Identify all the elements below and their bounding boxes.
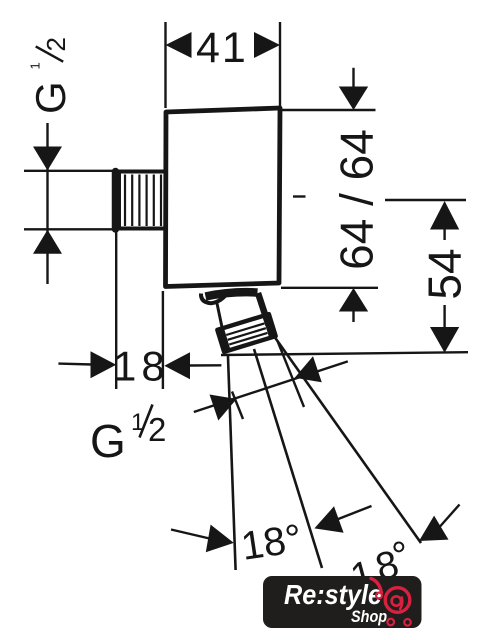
dim 18 arrow pointing right: [91, 351, 117, 378]
thread hatch line 6: [160, 175, 162, 227]
dim 18 left leader: [58, 362, 92, 365]
dim 41 arrow left: [166, 32, 192, 58]
logo at-sign tail: [400, 598, 402, 609]
label 18 degrees right (rotated): [346, 533, 414, 600]
svg-text:Re:style: Re:style: [284, 579, 382, 611]
spray cone line 2: [254, 349, 322, 568]
dim 54 line lower segment: [443, 305, 445, 350]
knurl line 2: [228, 328, 266, 340]
angle dim leader middle: [337, 506, 372, 520]
logo cart handle: [371, 579, 382, 593]
dim 64/64 bottom extension: [281, 287, 378, 289]
inlet thread box: [119, 172, 166, 229]
dim 18 right leader: [189, 364, 221, 367]
spray cone line 3: [273, 334, 422, 543]
logo at-sign inner ring: [392, 596, 401, 605]
svg-text:64 / 64: 64 / 64: [331, 129, 383, 270]
logo cart wheel left: [387, 619, 394, 626]
dim 64/64 vertical line top tail: [352, 68, 354, 108]
angle dim leader right: [440, 505, 460, 527]
spray cone line 1: [228, 354, 236, 570]
dim 18 extension line right: [162, 291, 164, 389]
dim 54 top extension: [385, 199, 466, 201]
thread hatch line 3: [138, 175, 140, 227]
dim 64/64 arrow up: [339, 288, 368, 312]
ball joint escutcheon crescent: [201, 291, 230, 304]
knurl line 1: [226, 323, 264, 335]
knurled nut left end bar: [220, 330, 226, 351]
svg-text:41: 41: [196, 24, 248, 72]
angle dim arrow at line2: [314, 506, 343, 532]
svg-text:1: 1: [28, 62, 43, 69]
logo at-sign outer ring: [385, 588, 410, 613]
dim 64/64 vertical line bottom tail: [352, 290, 354, 322]
thread hatch line 1: [124, 175, 126, 227]
mid-plane dash left of 64/64: [293, 195, 306, 197]
dim G1/2 inlet arrow down: [33, 147, 62, 171]
label G 1/2 inlet (rotated): [27, 37, 74, 114]
svg-text:18°: 18°: [238, 516, 304, 568]
dim G1/2 inlet bottom extension: [24, 228, 117, 230]
svg-text:G: G: [27, 81, 74, 114]
dim 54 arrow up: [430, 201, 459, 230]
knurled nut outline: [217, 314, 275, 352]
nozzle neck right edge: [258, 293, 269, 325]
svg-text:2: 2: [41, 37, 71, 51]
nozzle neck left edge: [217, 301, 224, 332]
dim 64/64 top extension: [282, 109, 376, 111]
dim G1/2 inlet top extension: [24, 170, 113, 172]
dim 54 arrow down: [430, 327, 459, 353]
thread hatch line 5: [153, 175, 155, 227]
angle dim arrow at line1: [206, 525, 234, 553]
dim 64/64 arrow down: [339, 87, 368, 111]
svg-text:2: 2: [148, 411, 166, 448]
angle dim leader far left: [171, 530, 210, 539]
dim 41 arrow right: [254, 32, 280, 58]
thread hatch line 2: [131, 175, 133, 227]
dim G1/2 outlet line: [194, 361, 348, 412]
dim G1/2 inlet arrow up: [33, 230, 62, 254]
dim G1/2 outlet arrow 1: [210, 395, 237, 421]
inlet thread left cap: [112, 172, 120, 230]
nozzle shoulder band: [206, 292, 258, 296]
wall outlet body: [166, 108, 281, 287]
thread hatch line 4: [146, 175, 148, 227]
label G 1/2 outlet: [90, 405, 166, 468]
logo cart handle loop: [376, 593, 382, 599]
outlet extension mark right: [278, 341, 305, 407]
dim G1/2 inlet vertical line: [46, 123, 48, 284]
dim 54 line upper segment: [443, 225, 445, 240]
svg-text:18: 18: [113, 343, 170, 390]
dim 18 arrow pointing left: [164, 352, 190, 379]
dim 41 extension line left: [164, 22, 166, 108]
outlet extension mark left: [232, 392, 243, 420]
svg-text:54: 54: [419, 248, 471, 299]
angle dim arrow at line3: [419, 516, 449, 541]
long horizontal reference line: [221, 352, 468, 355]
knurl line 3: [229, 333, 267, 345]
dim 18 extension line left: [115, 231, 117, 389]
knurled nut right end bar: [266, 316, 272, 337]
logo cart wheel right: [404, 619, 411, 626]
dim G1/2 outlet arrow 2: [295, 356, 322, 382]
svg-text:Shop: Shop: [351, 608, 387, 626]
svg-text:G: G: [90, 415, 126, 467]
logo box: [263, 576, 422, 628]
dim 41 extension line right: [279, 22, 281, 106]
